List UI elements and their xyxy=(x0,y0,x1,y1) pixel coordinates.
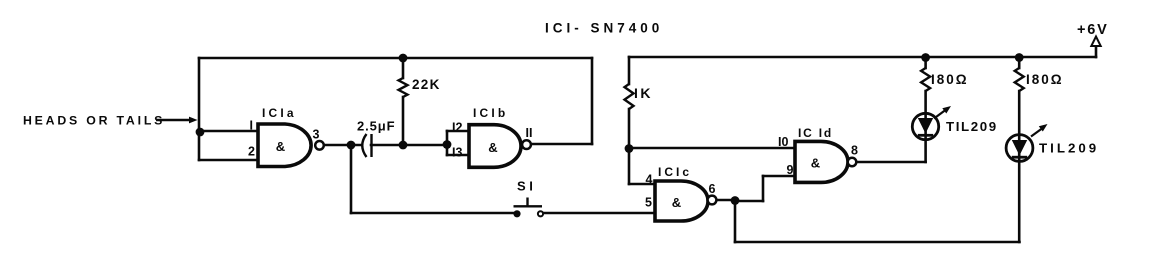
svg-text:5: 5 xyxy=(645,196,652,210)
svg-text:3: 3 xyxy=(313,128,320,142)
svg-text:IK: IK xyxy=(634,85,653,101)
svg-text:I80Ω: I80Ω xyxy=(931,72,969,87)
svg-text:&: & xyxy=(811,156,820,171)
svg-text:8: 8 xyxy=(851,144,858,158)
svg-text:I2: I2 xyxy=(452,121,462,135)
svg-text:S I: S I xyxy=(517,179,533,194)
svg-text:9: 9 xyxy=(787,163,794,177)
svg-text:2.5μF: 2.5μF xyxy=(357,119,395,134)
svg-text:&: & xyxy=(276,139,285,154)
svg-text:ICI- SN7400: ICI- SN7400 xyxy=(545,21,663,36)
svg-text:22K: 22K xyxy=(412,77,441,92)
svg-text:I: I xyxy=(250,119,253,133)
svg-text:II: II xyxy=(526,126,533,140)
svg-text:HEADS OR TAILS: HEADS OR TAILS xyxy=(23,114,165,128)
svg-text:2: 2 xyxy=(248,145,255,159)
svg-text:4: 4 xyxy=(646,173,653,187)
svg-text:&: & xyxy=(488,140,497,155)
svg-text:ICIa: ICIa xyxy=(262,106,297,120)
svg-text:ICIb: ICIb xyxy=(473,106,508,120)
svg-text:I80Ω: I80Ω xyxy=(1026,72,1064,87)
svg-text:TIL209: TIL209 xyxy=(946,119,998,134)
svg-text:6: 6 xyxy=(709,182,716,196)
svg-text:I0: I0 xyxy=(778,135,788,149)
svg-text:TIL209: TIL209 xyxy=(1039,141,1099,156)
svg-text:+6V: +6V xyxy=(1077,22,1109,38)
svg-text:ICIc: ICIc xyxy=(658,165,692,179)
svg-text:I3: I3 xyxy=(452,146,462,160)
svg-text:IC Id: IC Id xyxy=(798,126,833,140)
svg-text:&: & xyxy=(672,195,681,210)
